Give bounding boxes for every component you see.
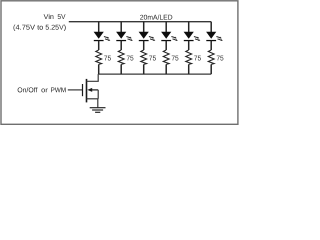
wire: Vin rail down to LED D4 anode (column 4) <box>165 22 167 32</box>
resistor R6 <box>208 50 214 64</box>
value label 75 of R2 <box>127 56 134 61</box>
Q1 drain lead <box>87 74 99 81</box>
value label 75 of R5 <box>194 56 201 61</box>
wire: resistor R4 down to bottom rail <box>165 64 167 74</box>
LED D4 <box>161 32 178 41</box>
wire: Vin rail down to LED D1 anode (column 1) <box>98 22 100 32</box>
wire: LED D4 cathode to resistor R4 <box>165 41 167 50</box>
wire: resistor R2 down to bottom rail <box>120 64 122 74</box>
wire: LED D6 cathode to resistor R6 <box>210 41 212 50</box>
wire: Vin 5V top rail <box>69 21 211 23</box>
wire: LED D1 cathode to resistor R1 <box>98 41 100 50</box>
label: On/Off or PWM <box>18 87 66 92</box>
resistor R3 <box>141 50 147 64</box>
wire: resistor R6 down to bottom rail <box>210 64 212 74</box>
wire: resistor R1 down to bottom rail <box>98 64 100 74</box>
Q1 gate bar <box>82 84 84 96</box>
label: Vin 5V <box>44 14 66 19</box>
resistor R4 <box>163 50 169 64</box>
label: (4.75V to 5.25V) <box>14 25 66 32</box>
value label 75 of R3 <box>149 56 156 61</box>
resistor R2 <box>118 50 124 64</box>
Q1 channel bar <box>86 79 88 103</box>
wire: Vin rail down to LED D5 anode (column 5) <box>188 22 190 32</box>
wire: LED D2 cathode to resistor R2 <box>120 41 122 50</box>
transistor Q1 n-channel MOSFET <box>83 74 99 102</box>
LED D5 <box>184 32 201 41</box>
resistor R5 <box>186 50 192 64</box>
ground <box>90 108 106 113</box>
border frame <box>1 1 238 125</box>
LED D1 <box>94 32 111 41</box>
wire: Vin rail down to LED D3 anode (column 3) <box>143 22 145 32</box>
wire: LED D5 cathode to resistor R5 <box>188 41 190 50</box>
wire: body-source node vertical <box>97 90 99 99</box>
LED D2 <box>116 32 133 41</box>
wire: resistor R3 down to bottom rail <box>143 64 145 74</box>
value label 75 of R1 <box>104 56 111 61</box>
wire: gate lead from On/Off or PWM input <box>68 89 82 91</box>
wire: LED cathode bottom rail <box>98 73 211 75</box>
wire: Vin rail down to LED D6 anode (column 6) <box>210 22 212 32</box>
wire: resistor R5 down to bottom rail <box>188 64 190 74</box>
LED D6 <box>206 32 223 41</box>
value label 75 of R6 <box>217 56 224 61</box>
wire: LED D3 cathode to resistor R3 <box>143 41 145 50</box>
resistor R1 <box>96 50 102 64</box>
label: 20mA/LED <box>140 15 172 20</box>
wire: source down to ground <box>97 99 99 108</box>
LED D3 <box>139 32 156 41</box>
Q1 body arrow <box>87 88 98 92</box>
value label 75 of R4 <box>172 56 179 61</box>
wire: Vin rail down to LED D2 anode (column 2) <box>120 22 122 32</box>
Q1 source lead <box>87 98 99 100</box>
